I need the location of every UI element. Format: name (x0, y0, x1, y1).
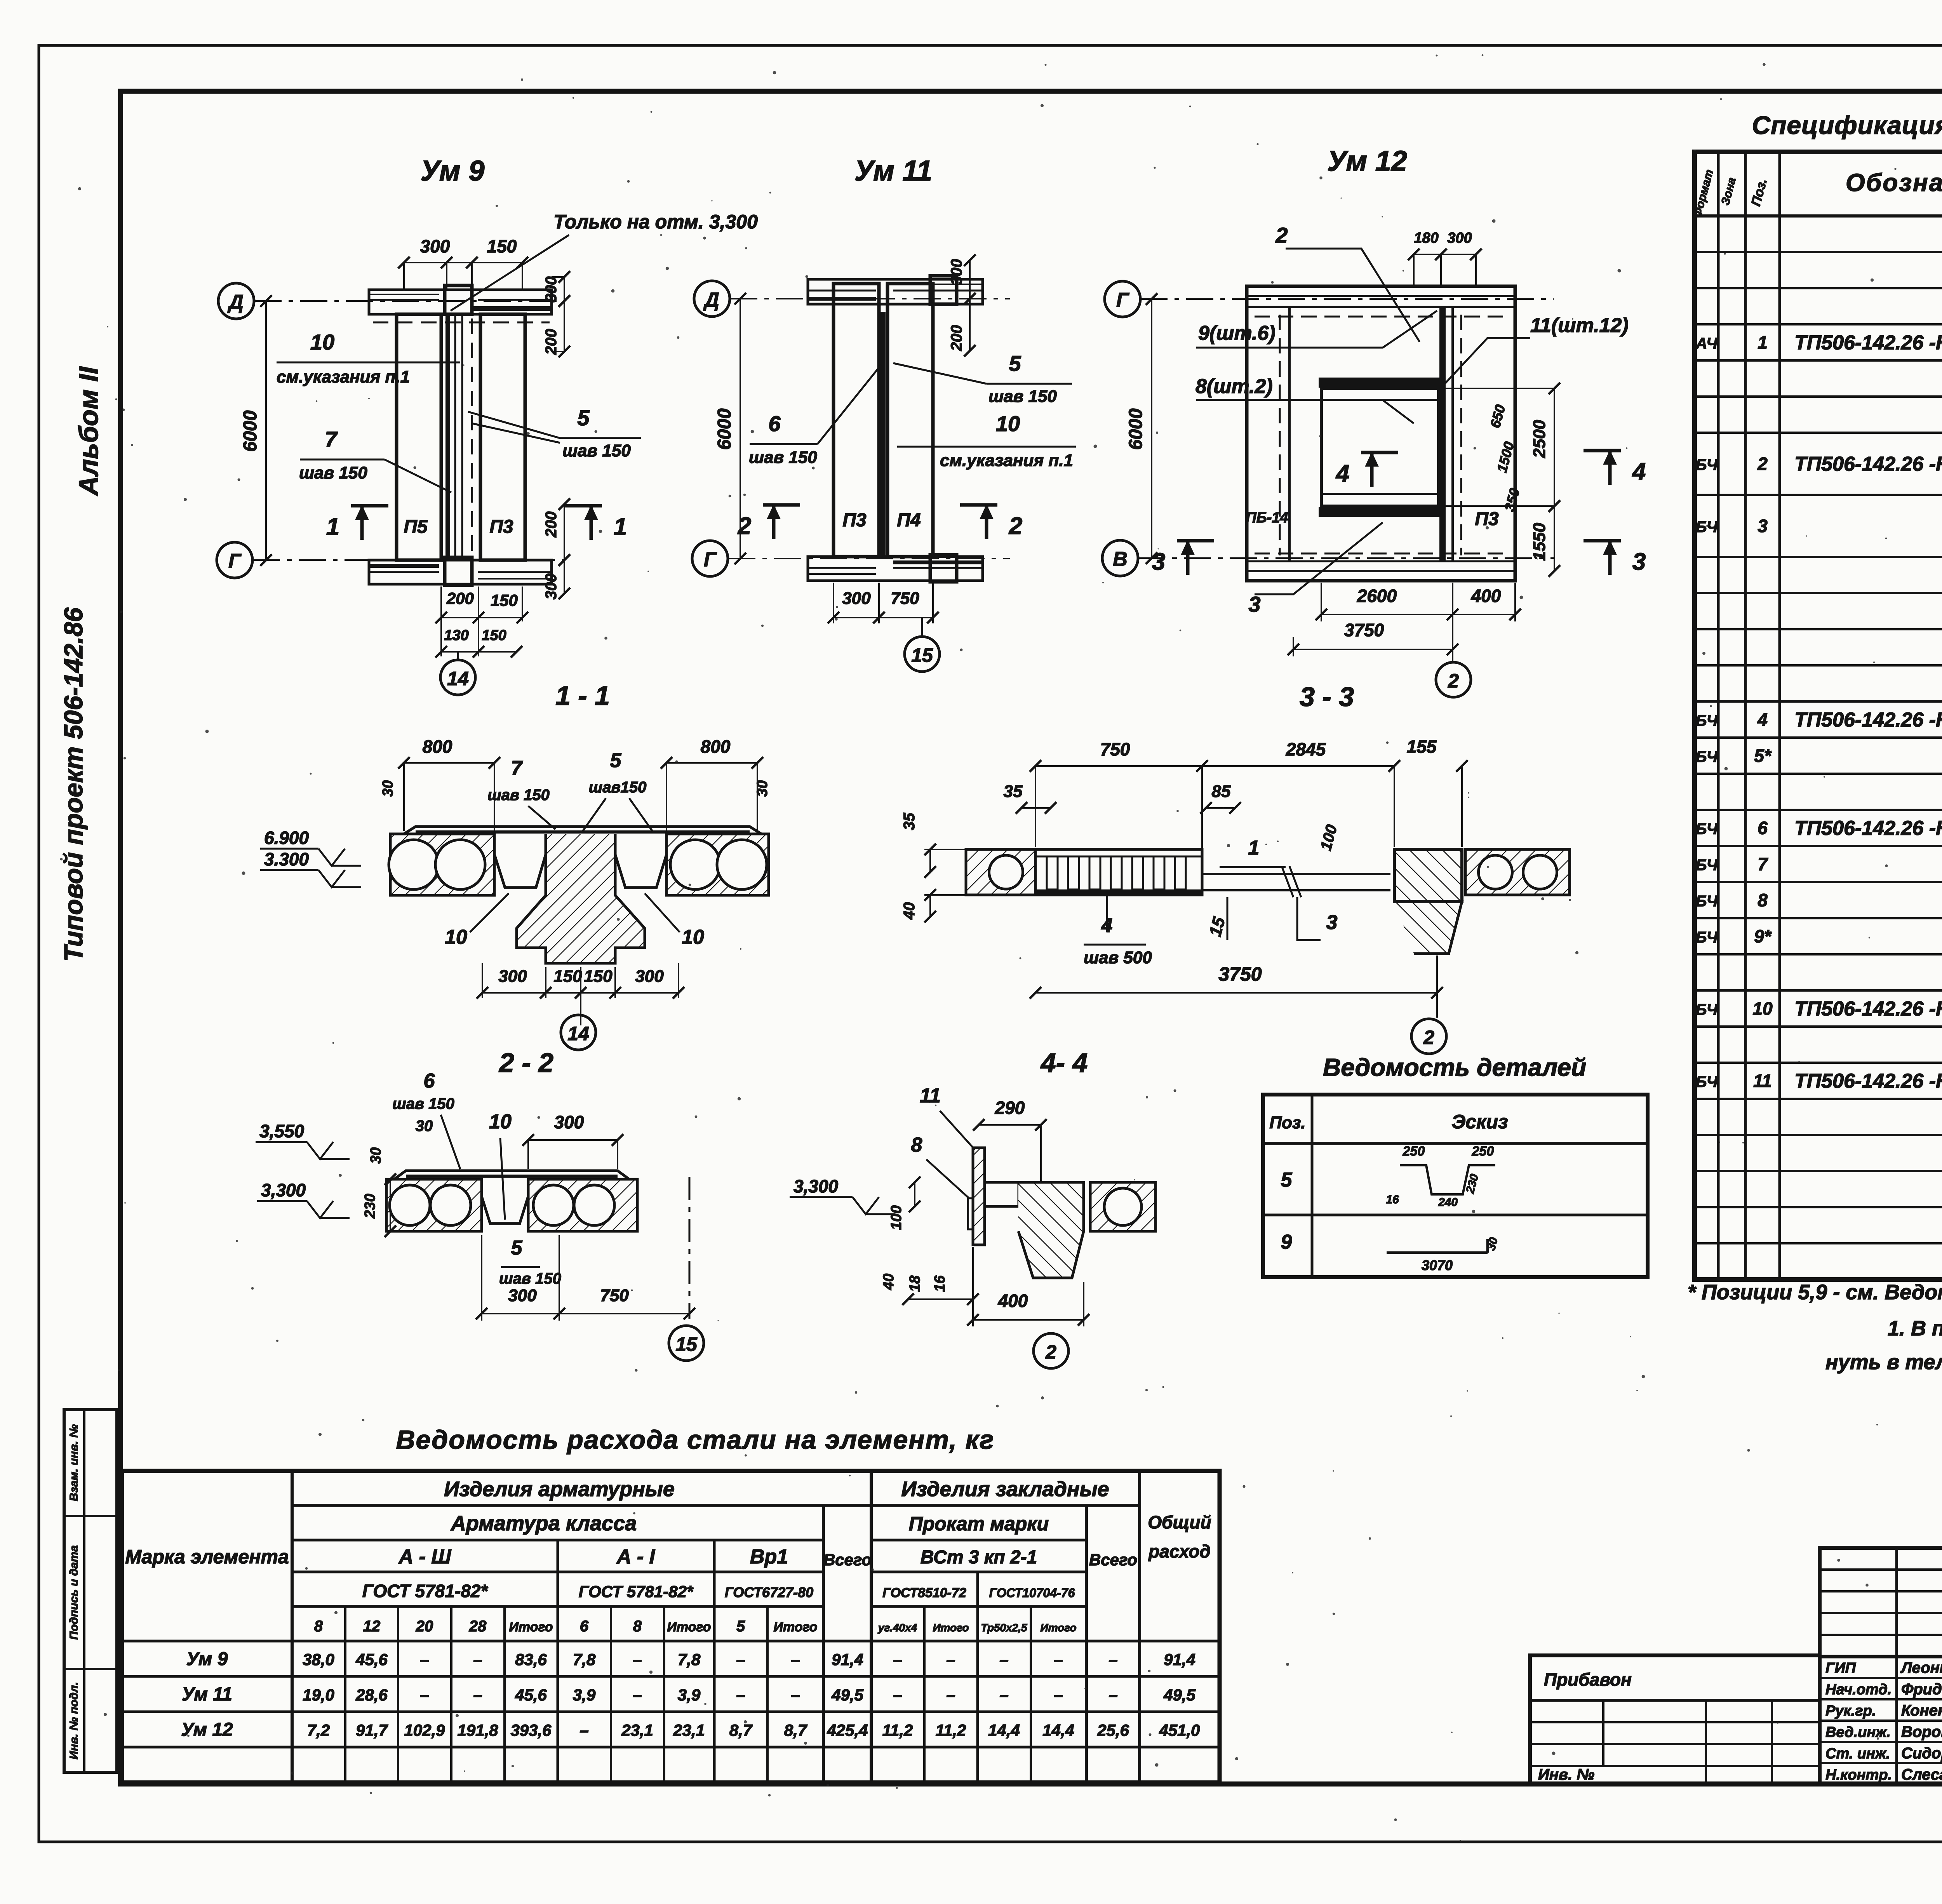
svg-text:10: 10 (682, 926, 704, 949)
svg-text:–: – (791, 1650, 800, 1669)
svg-text:–: – (1054, 1650, 1063, 1669)
svg-text:Нач.отд.: Нач.отд. (1825, 1681, 1892, 1698)
2-2 left slab (386, 1179, 482, 1231)
svg-text:6000: 6000 (1126, 408, 1146, 450)
svg-text:2: 2 (1275, 223, 1288, 247)
svg-text:БЧ: БЧ (1696, 748, 1718, 766)
joint thick line Ум11 (880, 312, 886, 557)
svg-text:30: 30 (416, 1117, 433, 1135)
svg-text:250: 250 (1403, 1144, 1425, 1159)
svg-text:14: 14 (567, 1023, 589, 1044)
svg-text:ТП506-142.26 -КЖИ-703.00: ТП506-142.26 -КЖИ-703.00 (1794, 332, 1942, 354)
svg-text:300: 300 (842, 589, 871, 608)
svg-text:14,4: 14,4 (988, 1721, 1020, 1739)
3-3 right slab (1465, 849, 1570, 895)
svg-text:30: 30 (368, 1147, 384, 1164)
svg-text:5: 5 (511, 1237, 523, 1259)
svg-text:–: – (473, 1650, 482, 1669)
svg-text:3: 3 (1758, 516, 1768, 536)
svg-text:150: 150 (584, 967, 613, 986)
2-2 right slab (528, 1179, 637, 1231)
circled 15 under Ум11 (921, 618, 923, 637)
svg-text:ВСт 3 кп 2-1: ВСт 3 кп 2-1 (921, 1547, 1037, 1568)
svg-text:ТП506-142.26 -КЖИ-955.00: ТП506-142.26 -КЖИ-955.00 (1794, 1070, 1942, 1093)
Ум12 bottom slab lines (1247, 560, 1515, 562)
Ум12 right vertical strips (1439, 307, 1446, 561)
svg-text:11: 11 (1753, 1071, 1772, 1091)
bottom slab band Ум11 (808, 557, 983, 581)
svg-text:4- 4: 4- 4 (1040, 1048, 1088, 1078)
svg-text:2: 2 (738, 513, 751, 540)
svg-text:300: 300 (498, 967, 527, 986)
svg-text:85: 85 (1212, 782, 1231, 801)
svg-text:–: – (1108, 1650, 1117, 1669)
svg-text:300: 300 (508, 1286, 537, 1305)
svg-text:Фрид: Фрид (1901, 1681, 1942, 1698)
svg-text:2: 2 (1045, 1341, 1056, 1363)
right dims 2500 1550 (1554, 388, 1555, 506)
svg-text:300: 300 (420, 236, 450, 256)
svg-text:Ум 9: Ум 9 (421, 155, 485, 187)
svg-text:35: 35 (1004, 782, 1023, 801)
svg-text:–: – (736, 1686, 745, 1704)
svg-text:800: 800 (423, 736, 452, 757)
svg-text:4: 4 (1632, 458, 1646, 485)
svg-text:4: 4 (1335, 460, 1349, 487)
title block: прибавон table (1530, 1655, 1820, 1784)
svg-text:Вр1: Вр1 (750, 1545, 788, 1568)
svg-text:290: 290 (995, 1098, 1025, 1118)
svg-text:180: 180 (1414, 230, 1438, 246)
svg-text:Типовой проект 506-142.86: Типовой проект 506-142.86 (59, 607, 88, 961)
1-1 right slab (666, 834, 769, 895)
svg-text:1: 1 (614, 513, 627, 540)
svg-text:40: 40 (901, 902, 918, 920)
svg-text:ТП506-142.26 -КЖИ-943.00: ТП506-142.26 -КЖИ-943.00 (1794, 817, 1942, 840)
Ум12 left vertical band (1288, 307, 1291, 561)
1-1 monolith hatched (517, 834, 645, 963)
svg-text:Ум 9: Ум 9 (186, 1649, 228, 1669)
svg-text:49,5: 49,5 (831, 1686, 863, 1704)
svg-text:2: 2 (1757, 454, 1768, 474)
4-4 right hollow slab (1090, 1182, 1155, 1231)
svg-text:8: 8 (1758, 890, 1768, 910)
svg-text:400: 400 (998, 1291, 1028, 1311)
svg-text:9*: 9* (1754, 926, 1772, 947)
svg-text:Изделия арматурные: Изделия арматурные (444, 1478, 675, 1501)
svg-text:150: 150 (553, 967, 582, 986)
svg-text:Марка элемента: Марка элемента (125, 1546, 289, 1568)
svg-text:15: 15 (675, 1333, 698, 1355)
svg-text:Подпись и дата: Подпись и дата (68, 1545, 80, 1639)
svg-text:3: 3 (1248, 592, 1260, 616)
svg-text:150: 150 (482, 627, 506, 644)
title block: signature grid (1820, 1548, 1942, 1784)
svg-text:3,300: 3,300 (261, 1180, 306, 1200)
svg-text:45,6: 45,6 (355, 1650, 388, 1669)
svg-text:102,9: 102,9 (404, 1721, 445, 1739)
svg-text:–: – (633, 1650, 642, 1669)
vert dim 6000 Ум12 (1151, 299, 1152, 558)
svg-text:ГОСТ6727-80: ГОСТ6727-80 (725, 1584, 813, 1600)
svg-text:Д: Д (227, 291, 244, 313)
4-4 vertical plate (973, 1148, 985, 1245)
svg-text:Эскиз: Эскиз (1451, 1111, 1508, 1133)
panel П5 (397, 314, 441, 560)
section marks 4 & 3 on Ум12 (1361, 451, 1398, 454)
svg-text:ГОСТ 5781-82*: ГОСТ 5781-82* (579, 1582, 694, 1601)
svg-text:БЧ: БЧ (1696, 1001, 1718, 1018)
svg-text:250: 250 (1472, 1144, 1494, 1159)
steel table grid (122, 1471, 1220, 1782)
svg-text:10: 10 (310, 330, 334, 354)
svg-text:Обозначение: Обозначение (1846, 169, 1942, 197)
vert dim 6000 Ум9 (265, 301, 267, 560)
circled 2 under 3-3 (1411, 1019, 1446, 1054)
svg-text:Леонтьев: Леонтьев (1900, 1659, 1942, 1676)
svg-text:91,7: 91,7 (356, 1721, 388, 1739)
svg-text:БЧ: БЧ (1696, 929, 1718, 946)
svg-text:П5: П5 (404, 517, 428, 537)
svg-text:11(шт.12): 11(шт.12) (1530, 314, 1629, 337)
svg-text:Общий: Общий (1148, 1512, 1211, 1532)
1-1 topping (404, 827, 761, 834)
svg-text:200: 200 (446, 589, 474, 607)
svg-text:В: В (1113, 548, 1128, 571)
svg-text:шав 150: шав 150 (487, 787, 550, 804)
svg-text:–: – (420, 1650, 429, 1669)
svg-text:300: 300 (554, 1112, 584, 1132)
svg-text:–: – (791, 1686, 800, 1704)
svg-text:200: 200 (543, 512, 560, 538)
svg-text:3750: 3750 (1218, 963, 1262, 985)
svg-text:–: – (893, 1686, 902, 1704)
svg-text:10: 10 (489, 1110, 512, 1133)
svg-text:1. В пределах отверстия стержн: 1. В пределах отверстия стержни (поз.10)… (1888, 1317, 1942, 1340)
svg-text:А - Ш: А - Ш (398, 1545, 452, 1568)
svg-text:19,0: 19,0 (303, 1686, 334, 1704)
svg-text:БЧ: БЧ (1696, 456, 1718, 473)
1-1 right trough (615, 834, 666, 888)
svg-text:35: 35 (901, 813, 918, 830)
svg-text:2500: 2500 (1530, 420, 1549, 458)
svg-text:–: – (736, 1650, 745, 1669)
svg-text:ТП506-142.26 -КЖИ-950.00: ТП506-142.26 -КЖИ-950.00 (1794, 453, 1942, 475)
svg-text:Только на отм. 3,300: Только на отм. 3,300 (553, 211, 758, 233)
svg-text:6: 6 (1758, 818, 1768, 838)
svg-text:3,550: 3,550 (259, 1121, 305, 1141)
svg-text:240: 240 (1438, 1196, 1458, 1209)
svg-text:300: 300 (543, 277, 560, 303)
svg-text:3,9: 3,9 (573, 1686, 596, 1704)
svg-text:Тр50х2,5: Тр50х2,5 (981, 1622, 1027, 1634)
svg-text:49,5: 49,5 (1163, 1686, 1195, 1704)
svg-text:191,8: 191,8 (457, 1721, 498, 1739)
scan speckles (1720, 98, 1722, 100)
svg-text:нуть в тело бетона.: нуть в тело бетона. (1825, 1351, 1942, 1374)
2-2 dash-dot vertical (689, 1177, 691, 1319)
axis circle Г (Ум9) (217, 542, 252, 578)
svg-text:Итого: Итого (933, 1622, 969, 1634)
svg-text:шав150: шав150 (589, 779, 647, 796)
1-1 left slab (390, 834, 494, 895)
svg-text:7,8: 7,8 (678, 1650, 701, 1669)
svg-text:ПБ-14: ПБ-14 (1246, 510, 1288, 526)
top slab band Ум9 (369, 290, 552, 314)
svg-text:4: 4 (1757, 710, 1768, 730)
svg-text:3: 3 (1152, 548, 1165, 575)
svg-text:28,6: 28,6 (355, 1686, 388, 1704)
svg-text:9: 9 (1281, 1231, 1292, 1253)
svg-text:2 - 2: 2 - 2 (498, 1048, 553, 1078)
svg-text:3750: 3750 (1344, 620, 1384, 640)
svg-text:БЧ: БЧ (1696, 519, 1718, 536)
axis circle Д (Ум9) (218, 283, 254, 319)
Ум12 opening with bars (1321, 388, 1439, 506)
svg-text:6: 6 (424, 1070, 435, 1092)
svg-text:155: 155 (1407, 736, 1437, 757)
svg-text:100: 100 (888, 1205, 905, 1230)
bottom slab band Ум9 (369, 560, 552, 584)
svg-text:–: – (473, 1686, 482, 1704)
svg-text:2: 2 (1423, 1027, 1434, 1048)
Ум12 outer plan (1247, 286, 1515, 581)
svg-text:14,4: 14,4 (1042, 1721, 1074, 1739)
svg-text:8(шт.2): 8(шт.2) (1195, 375, 1273, 398)
svg-text:БЧ: БЧ (1696, 857, 1718, 874)
svg-text:400: 400 (1471, 586, 1501, 606)
top slab band Ум11 (808, 279, 983, 304)
svg-text:БЧ: БЧ (1696, 821, 1718, 838)
circled 14 under Ум9 (457, 652, 459, 660)
svg-text:200: 200 (948, 325, 965, 352)
svg-text:Инв. № подл.: Инв. № подл. (68, 1682, 80, 1759)
svg-text:16: 16 (1386, 1193, 1399, 1206)
svg-text:1: 1 (1758, 332, 1768, 353)
svg-text:750: 750 (1100, 739, 1130, 759)
axis circle В (Ум12) (1102, 540, 1138, 576)
svg-text:3.300: 3.300 (264, 849, 309, 869)
svg-text:ГОСТ 5781-82*: ГОСТ 5781-82* (362, 1581, 489, 1601)
svg-text:800: 800 (701, 736, 731, 757)
svg-text:Сидорова: Сидорова (1901, 1745, 1942, 1762)
2-2 trough (482, 1179, 528, 1224)
svg-text:БЧ: БЧ (1696, 1074, 1718, 1091)
svg-text:–: – (1108, 1686, 1117, 1704)
svg-text:9(шт.6): 9(шт.6) (1198, 322, 1276, 345)
svg-text:Ведомость деталей: Ведомость деталей (1323, 1053, 1586, 1081)
section marks 1-1 on plan (351, 504, 388, 508)
svg-text:6000: 6000 (714, 408, 735, 450)
circled 2 under Ум12 (1436, 662, 1471, 697)
svg-text:2: 2 (1009, 513, 1022, 540)
svg-text:–: – (999, 1686, 1008, 1704)
svg-text:425,4: 425,4 (827, 1721, 868, 1739)
svg-text:расход: расход (1148, 1541, 1211, 1561)
svg-text:750: 750 (891, 589, 919, 608)
svg-text:7,8: 7,8 (573, 1650, 596, 1669)
svg-text:уг.40х4: уг.40х4 (877, 1622, 917, 1634)
svg-text:15: 15 (911, 644, 933, 666)
circled 15 under 2-2 (669, 1326, 704, 1361)
svg-text:Всего: Всего (823, 1551, 872, 1569)
svg-text:Поз.: Поз. (1269, 1113, 1305, 1132)
svg-text:7: 7 (325, 427, 338, 451)
svg-text:–: – (420, 1686, 429, 1704)
svg-text:А - I: А - I (616, 1545, 656, 1568)
svg-text:2845: 2845 (1286, 739, 1326, 759)
svg-text:8,7: 8,7 (729, 1721, 753, 1739)
svg-text:393,6: 393,6 (510, 1721, 552, 1739)
svg-text:–: – (946, 1686, 955, 1704)
vert dim 6000 Ум11 (740, 299, 741, 559)
svg-text:–: – (999, 1650, 1008, 1669)
svg-text:300: 300 (543, 574, 560, 600)
svg-text:6000: 6000 (240, 410, 261, 452)
svg-text:ТП506-142.26 -КЖИ-952.00: ТП506-142.26 -КЖИ-952.00 (1794, 709, 1942, 731)
svg-text:83,6: 83,6 (515, 1650, 547, 1669)
svg-text:–: – (893, 1650, 902, 1669)
axis circle Д (Ум11) (694, 281, 730, 317)
svg-text:АЧ: АЧ (1695, 335, 1718, 352)
svg-text:Ст. инж.: Ст. инж. (1825, 1746, 1890, 1762)
svg-text:Спецификация монолитных учас: Спецификация монолитных участков Ум 9, У… (1752, 111, 1942, 139)
axis circle Г (Ум11) (692, 541, 728, 576)
svg-text:Ум 12: Ум 12 (181, 1720, 233, 1740)
svg-text:14: 14 (447, 668, 469, 689)
3-3 right column hatched (1394, 849, 1462, 902)
left margin stamp boxes (64, 1410, 117, 1772)
svg-text:20: 20 (416, 1618, 433, 1635)
svg-text:10: 10 (1752, 999, 1773, 1019)
svg-text:5*: 5* (1754, 746, 1772, 766)
svg-text:8: 8 (911, 1134, 922, 1156)
svg-text:1 - 1: 1 - 1 (555, 680, 610, 711)
svg-text:30: 30 (380, 780, 396, 797)
svg-text:5: 5 (1009, 351, 1021, 376)
3-3 ribbed monolith (1035, 849, 1202, 895)
svg-text:11: 11 (920, 1084, 941, 1107)
panel П3 (Ум9) (480, 314, 525, 560)
svg-text:300: 300 (1447, 230, 1472, 246)
svg-text:Ум 11: Ум 11 (854, 155, 932, 187)
svg-text:Г: Г (228, 550, 242, 573)
axis circle Г (Ум12) (1105, 281, 1140, 317)
svg-text:Воронова: Воронова (1901, 1723, 1942, 1740)
Ум12 top slab lines (1247, 295, 1515, 297)
svg-text:16: 16 (932, 1275, 948, 1292)
svg-text:2: 2 (1448, 670, 1459, 692)
panel П3 (Ум11) (834, 284, 879, 557)
svg-text:П3: П3 (489, 517, 513, 537)
svg-text:2600: 2600 (1357, 586, 1397, 606)
svg-text:10: 10 (445, 926, 467, 949)
svg-text:45,6: 45,6 (515, 1686, 547, 1704)
svg-text:3,300: 3,300 (794, 1176, 839, 1196)
svg-text:8: 8 (633, 1618, 642, 1635)
svg-text:см.указания п.1: см.указания п.1 (940, 451, 1073, 470)
3-3 left slab (966, 849, 1035, 895)
svg-text:П3: П3 (842, 510, 867, 531)
svg-text:28: 28 (469, 1618, 487, 1635)
4-4 big hatched block (1018, 1182, 1084, 1278)
svg-text:шав 150: шав 150 (499, 1270, 561, 1287)
svg-text:7,2: 7,2 (307, 1721, 330, 1739)
svg-text:12: 12 (363, 1618, 381, 1635)
svg-text:1: 1 (1248, 837, 1260, 859)
svg-text:6: 6 (580, 1618, 589, 1635)
svg-text:ТП506-142.26 -КЖИ-936.00: ТП506-142.26 -КЖИ-936.00 (1794, 998, 1942, 1020)
svg-text:шав 150: шав 150 (988, 387, 1057, 406)
svg-text:5: 5 (1281, 1169, 1293, 1191)
svg-text:6: 6 (768, 411, 781, 436)
svg-text:ГОСТ10704-76: ГОСТ10704-76 (989, 1586, 1075, 1600)
svg-text:–: – (946, 1650, 955, 1669)
3-3 thin topping (1202, 873, 1390, 875)
svg-text:БЧ: БЧ (1696, 893, 1718, 910)
svg-text:шав 500: шав 500 (1084, 948, 1152, 967)
svg-text:см.указания п.1: см.указания п.1 (277, 367, 410, 386)
circled 14 under 1-1 (561, 1015, 596, 1050)
svg-text:Итого: Итого (773, 1620, 817, 1634)
4-4 slab strip (985, 1182, 1019, 1206)
panel П4 (887, 284, 933, 557)
svg-text:25,6: 25,6 (1097, 1721, 1129, 1739)
svg-text:11,2: 11,2 (882, 1721, 913, 1739)
svg-text:10: 10 (996, 411, 1020, 436)
svg-text:ГОСТ8510-72: ГОСТ8510-72 (882, 1586, 966, 1600)
svg-text:300: 300 (948, 259, 965, 285)
svg-text:6.900: 6.900 (264, 828, 309, 848)
1-1 left trough (494, 834, 546, 888)
svg-text:Д: Д (703, 289, 719, 311)
svg-text:Слесарева: Слесарева (1901, 1766, 1942, 1783)
svg-text:3,9: 3,9 (678, 1686, 701, 1704)
svg-text:Взам. инв. №: Взам. инв. № (68, 1424, 80, 1501)
svg-text:5: 5 (736, 1618, 745, 1635)
svg-text:ГИП: ГИП (1825, 1660, 1856, 1676)
svg-text:7: 7 (511, 757, 523, 780)
svg-text:шав 150: шав 150 (749, 448, 817, 467)
svg-text:8,7: 8,7 (784, 1721, 807, 1739)
svg-text:3: 3 (1326, 911, 1338, 934)
svg-text:Г: Г (704, 548, 717, 571)
svg-text:3 - 3: 3 - 3 (1300, 682, 1354, 712)
joint between panels Ум9 (445, 314, 450, 560)
svg-text:40: 40 (881, 1274, 897, 1290)
2-2 topping (394, 1171, 629, 1179)
svg-text:23,1: 23,1 (621, 1721, 653, 1739)
svg-text:–: – (633, 1686, 642, 1704)
svg-text:150: 150 (487, 236, 517, 256)
svg-text:Рук.гр.: Рук.гр. (1825, 1703, 1876, 1719)
svg-text:Прокат марки: Прокат марки (909, 1513, 1049, 1535)
svg-text:Инв. №: Инв. № (1538, 1766, 1594, 1783)
section marks 2-2 on plan (763, 503, 800, 507)
svg-text:300: 300 (635, 967, 664, 986)
svg-text:шав 150: шав 150 (299, 463, 367, 482)
svg-text:130: 130 (444, 627, 468, 644)
Ум12 diagonal leader lines (1286, 249, 1420, 342)
svg-text:Ум 11: Ум 11 (182, 1684, 232, 1705)
spec table grid (1695, 152, 1942, 1279)
svg-text:* Позиции 5,9 - см. Ведомость: * Позиции 5,9 - см. Ведомость деталей (1688, 1281, 1942, 1304)
svg-text:3070: 3070 (1422, 1257, 1453, 1273)
svg-text:11,2: 11,2 (936, 1721, 966, 1739)
svg-text:–: – (1054, 1686, 1063, 1704)
svg-text:8: 8 (314, 1618, 323, 1635)
svg-text:7: 7 (1758, 854, 1768, 874)
